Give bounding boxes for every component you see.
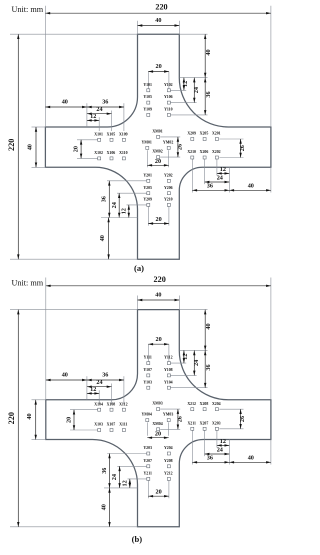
svg-text:24: 24 (96, 379, 102, 386)
svg-text:X111: X111 (119, 423, 127, 427)
ext lines bottom arm dims (b) (107, 453, 147, 455)
svg-text:X202: X202 (212, 150, 221, 154)
svg-text:Y207: Y207 (143, 459, 152, 463)
svg-text:20: 20 (156, 489, 162, 496)
svg-text:220: 220 (155, 3, 167, 12)
svg-text:Y202: Y202 (164, 173, 173, 177)
svg-text:X108: X108 (107, 402, 116, 406)
dim 20 bottom arm 20 (b) (148, 495, 169, 497)
ext lines top arm 20 dim (a) (147, 72, 149, 89)
dim 20 top arm gauge spacing (b) (148, 343, 169, 345)
dim 12 bottom arm 12 (b) (129, 479, 131, 488)
svg-text:Y209: Y209 (143, 198, 152, 202)
dim 40 right arm 40 (b) (229, 461, 271, 463)
ext lines 220 top (a) (44, 6, 46, 127)
dim 20 top arm gauge spacing (a) (148, 71, 169, 73)
dim 36 top arm 36 (b) (204, 350, 206, 387)
specimen outline (a) (45, 34, 271, 259)
svg-text:36: 36 (102, 99, 108, 106)
svg-text:X101: X101 (94, 132, 103, 136)
svg-text:20: 20 (73, 146, 80, 152)
dim 40 arm width 40 top (a) (138, 25, 180, 27)
svg-text:24: 24 (96, 106, 102, 113)
dim 36 top arm 36 (a) (204, 78, 206, 115)
svg-text:26: 26 (176, 416, 183, 422)
dim 220 overall 220 left (b) (17, 310, 19, 527)
svg-text:X112: X112 (119, 402, 127, 406)
dim 36 left arm 36 (a) (87, 106, 124, 108)
dim 24 left arm 24 (b) (87, 386, 112, 388)
svg-text:X102: X102 (94, 151, 103, 155)
svg-text:12: 12 (182, 81, 189, 87)
dim 24 top arm 24 (a) (193, 78, 195, 103)
dim 24 top arm 24 (b) (193, 350, 195, 375)
svg-text:YM02: YM02 (163, 141, 173, 145)
dim 26 right arm 26 (a) (240, 139, 242, 158)
ext lines right arm dims (a) (219, 138, 243, 140)
svg-text:Y106: Y106 (164, 95, 173, 99)
svg-text:X206: X206 (200, 150, 209, 154)
svg-text:Y101: Y101 (143, 83, 152, 87)
svg-text:Y105: Y105 (143, 95, 152, 99)
svg-text:(b): (b) (132, 534, 143, 544)
dim 20 bottom arm 20 (a) (148, 223, 169, 225)
svg-text:X212: X212 (187, 402, 196, 406)
svg-text:X208: X208 (200, 402, 209, 406)
svg-text:12: 12 (90, 386, 96, 393)
svg-text:X204: X204 (212, 402, 221, 406)
specimen outline (b) (46, 310, 271, 527)
svg-text:40: 40 (155, 17, 161, 24)
svg-text:X207: X207 (200, 421, 209, 425)
svg-text:40: 40 (155, 292, 161, 299)
svg-text:20: 20 (156, 336, 162, 343)
dim 36 bottom arm 36 (a) (108, 181, 110, 218)
svg-text:Y111: Y111 (144, 356, 152, 360)
ext lines center cluster (a) (160, 136, 180, 138)
svg-text:40: 40 (248, 455, 254, 462)
dim 220 overall 220 top (b) (46, 285, 271, 287)
dim 40 arm height 40 left (b) (35, 400, 37, 440)
dim 40 arm height 40 left (a) (35, 127, 37, 167)
dim 26 center 26 (a) (177, 137, 179, 157)
ext lines 220 left (b) (10, 309, 138, 311)
svg-text:Y107: Y107 (143, 368, 152, 372)
svg-text:XM03: XM03 (152, 402, 162, 406)
dim 20 center 20 (b) (147, 437, 168, 439)
svg-text:20: 20 (156, 216, 162, 223)
svg-text:40: 40 (26, 413, 33, 419)
dim 26 center 26 (b) (177, 409, 179, 429)
ext lines 220 top (b) (45, 278, 47, 400)
svg-text:26: 26 (239, 145, 246, 151)
svg-text:40: 40 (62, 372, 68, 379)
svg-text:12: 12 (121, 208, 128, 214)
dim 220 overall 220 left (a) (17, 34, 19, 259)
dim 40 left arm 40 (b) (46, 379, 87, 381)
svg-text:X203: X203 (212, 421, 221, 425)
svg-text:Y211: Y211 (143, 472, 151, 476)
dim 40 top arm 40 (a) (204, 34, 206, 77)
svg-text:Unit: mm: Unit: mm (12, 279, 44, 288)
dim 20 center 20 (a) (147, 164, 168, 166)
ext lines 40 arm height left (a) (32, 126, 46, 128)
dim 26 right arm 26 (b) (240, 409, 242, 429)
svg-text:Y201: Y201 (143, 173, 152, 177)
svg-text:40: 40 (205, 49, 212, 55)
dim 40 left arm 40 (a) (45, 106, 87, 108)
dim 12 top arm 12 (b) (183, 350, 185, 363)
svg-text:24: 24 (217, 174, 223, 181)
svg-text:26: 26 (176, 144, 183, 150)
svg-text:X201: X201 (212, 132, 221, 136)
svg-text:X105: X105 (107, 132, 116, 136)
svg-text:36: 36 (101, 468, 108, 474)
svg-text:Y208: Y208 (164, 459, 173, 463)
svg-text:Y112: Y112 (164, 356, 172, 360)
svg-text:XM04: XM04 (152, 422, 162, 426)
dim 40 arm width 40 top (b) (138, 299, 180, 301)
dim 36 bottom arm 36 (b) (109, 454, 111, 488)
svg-text:40: 40 (26, 144, 33, 150)
svg-text:12: 12 (220, 438, 226, 445)
svg-text:X205: X205 (200, 132, 209, 136)
svg-text:220: 220 (7, 412, 16, 424)
ext lines top arm 20 dim (b) (147, 344, 149, 361)
svg-text:24: 24 (111, 202, 118, 208)
dim 20 left arm 20 (a) (80, 140, 82, 159)
svg-text:X103: X103 (94, 423, 103, 427)
svg-text:Y104: Y104 (164, 380, 173, 384)
svg-text:Y108: Y108 (164, 368, 173, 372)
svg-text:24: 24 (193, 360, 200, 366)
svg-text:YM01: YM01 (142, 141, 152, 145)
svg-text:X210: X210 (187, 150, 196, 154)
ext lines top arm rows to right dims (b) (179, 309, 207, 311)
dim 24 left arm 24 (a) (87, 113, 112, 115)
svg-text:Y205: Y205 (143, 186, 152, 190)
ext lines left arm dims (a) (86, 103, 88, 127)
dim 24 bottom arm 24 (a) (118, 193, 120, 217)
dim 40 bottom arm 40 (a) (108, 218, 110, 260)
svg-text:36: 36 (102, 372, 108, 379)
svg-text:Y210: Y210 (164, 198, 173, 202)
svg-text:20: 20 (155, 158, 161, 165)
ext lines 40 arm height left (b) (32, 399, 46, 401)
svg-text:12: 12 (90, 113, 96, 120)
dim 220 overall 220 top (a) (45, 12, 271, 14)
dim 36 left arm 36 (b) (87, 379, 124, 381)
svg-text:24: 24 (193, 87, 200, 93)
dim 40 bottom arm 40 (b) (109, 488, 111, 527)
svg-text:40: 40 (62, 99, 68, 106)
svg-text:X104: X104 (94, 402, 103, 406)
svg-text:X211: X211 (187, 421, 195, 425)
svg-text:X106: X106 (107, 151, 116, 155)
ext lines 40 arm width top (b) (137, 296, 139, 310)
svg-text:40: 40 (248, 183, 254, 190)
svg-text:XM02: XM02 (152, 150, 162, 154)
dim 24 right arm 24 (a) (205, 181, 230, 183)
dim 40 right arm 40 (a) (229, 189, 271, 191)
dim 24 right arm 24 (b) (205, 453, 230, 455)
svg-text:12: 12 (182, 354, 189, 360)
svg-text:XM01: XM01 (152, 130, 162, 134)
svg-text:Y109: Y109 (143, 108, 152, 112)
svg-text:220: 220 (154, 275, 166, 284)
dim 12 left arm 12 (a) (87, 119, 99, 121)
svg-text:36: 36 (207, 183, 213, 190)
svg-text:Y103: Y103 (143, 380, 152, 384)
dim 12 right arm 12 (a) (217, 172, 229, 174)
svg-text:Y203: Y203 (143, 446, 152, 450)
svg-text:YM04: YM04 (142, 413, 152, 417)
svg-text:36: 36 (207, 455, 213, 462)
svg-text:20: 20 (65, 417, 72, 423)
ext lines bottom arm dims (a) (107, 180, 147, 182)
svg-text:YM03: YM03 (163, 413, 173, 417)
svg-text:36: 36 (101, 196, 108, 202)
svg-text:26: 26 (239, 416, 246, 422)
svg-text:24: 24 (111, 474, 118, 480)
dim 12 right arm 12 (b) (217, 444, 229, 446)
ext lines center cluster (b) (160, 408, 180, 410)
svg-text:Unit: mm: Unit: mm (12, 5, 44, 14)
svg-text:36: 36 (205, 364, 212, 370)
dim 36 right arm 36 (a) (192, 189, 229, 191)
svg-text:12: 12 (220, 166, 226, 173)
svg-text:X107: X107 (107, 423, 116, 427)
svg-text:40: 40 (205, 323, 212, 329)
svg-text:220: 220 (7, 139, 16, 151)
ext lines top arm rows to right dims (a) (179, 33, 207, 35)
dim 40 top arm 40 (b) (204, 310, 206, 351)
svg-text:Y212: Y212 (164, 472, 173, 476)
dim 12 top arm 12 (a) (183, 78, 185, 91)
ext lines 40 arm width top (a) (137, 21, 139, 34)
svg-text:20: 20 (155, 430, 161, 437)
svg-text:Y206: Y206 (164, 186, 173, 190)
dim 24 bottom arm 24 (b) (119, 466, 121, 488)
svg-text:X109: X109 (119, 132, 128, 136)
svg-text:40: 40 (99, 235, 106, 241)
svg-text:24: 24 (217, 446, 223, 453)
svg-text:20: 20 (156, 63, 162, 70)
svg-text:X110: X110 (119, 151, 127, 155)
svg-text:36: 36 (205, 91, 212, 97)
ext lines 220 left (a) (10, 33, 138, 35)
ext lines left arm dims (b) (86, 376, 88, 400)
svg-text:Y102: Y102 (164, 83, 173, 87)
svg-text:40: 40 (100, 504, 107, 510)
dim 12 bottom arm 12 (a) (128, 205, 130, 218)
dim 12 left arm 12 (b) (87, 392, 99, 394)
dim 20 left arm 20 (b) (73, 410, 75, 430)
svg-text:12: 12 (122, 480, 129, 486)
svg-text:Y110: Y110 (164, 108, 172, 112)
svg-text:X209: X209 (187, 132, 196, 136)
svg-text:Y204: Y204 (164, 446, 173, 450)
dim 36 right arm 36 (b) (192, 461, 229, 463)
svg-text:(a): (a) (134, 263, 144, 273)
ext lines right arm dims (b) (219, 408, 243, 410)
